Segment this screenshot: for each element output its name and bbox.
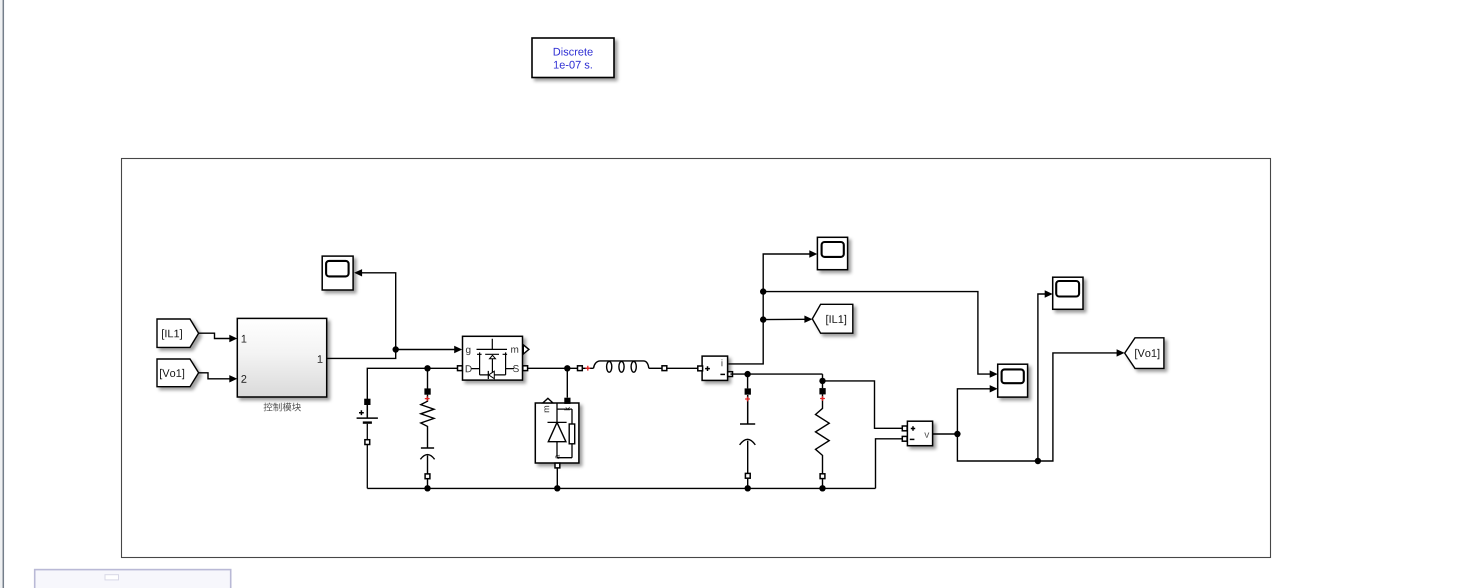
inductor L1	[578, 361, 700, 372]
MOSFET block	[458, 336, 529, 380]
junction node snubber branch	[424, 365, 430, 389]
output resistor branch R2	[816, 388, 830, 488]
current measurement block I1	[698, 356, 733, 380]
scope Scope2	[817, 237, 847, 269]
wire branch to Goto [IL1]	[760, 316, 812, 323]
wire From [Vo1] to subsystem port 2	[199, 373, 238, 383]
diode block D1	[535, 398, 579, 468]
scope Scope4	[1053, 277, 1083, 309]
window left edge	[0, 0, 3, 588]
bottom-left overlay panel	[35, 570, 231, 588]
Goto tag [Vo1]	[1125, 338, 1164, 369]
junction node at gate branch	[393, 346, 399, 352]
wire i output to Scope2	[728, 250, 817, 364]
wire subsystem output to Scope1 and MOSFET gate	[327, 269, 463, 358]
Goto tag [IL1]	[812, 304, 853, 333]
wire From [IL1] to subsystem port 1	[199, 333, 238, 342]
scope Scope1 (mirrored, input on right)	[322, 256, 353, 290]
series RC snubber branch R1C1	[420, 388, 434, 488]
ground rail (bottom return wire)	[367, 485, 875, 491]
DC voltage source E	[357, 399, 378, 489]
wire v- input to ground rail	[876, 439, 903, 489]
powergui block "Discrete 1e-07 s."	[532, 38, 614, 78]
wire minus rail from current measurement to load top	[730, 374, 902, 428]
wire branch to Scope3 input 1	[760, 288, 998, 377]
wire diode anode to ground rail	[554, 468, 560, 491]
wire DC source to MOSFET D (drain rail)	[367, 368, 457, 399]
From tag [Vo1]	[157, 359, 199, 387]
wire branch to Scope4	[1035, 290, 1053, 464]
From tag [IL1]	[157, 319, 199, 347]
model boundary frame	[122, 159, 1271, 558]
subsystem block 控制模块	[237, 318, 326, 411]
wire v output with branches	[933, 349, 1125, 461]
wire MOSFET S to inductor / diode node	[528, 365, 578, 398]
scope Scope3 (two inputs)	[998, 364, 1028, 397]
junction node capacitor branch	[744, 371, 750, 389]
output capacitor branch C2	[740, 388, 756, 488]
voltage measurement block V1	[902, 421, 932, 446]
junction node resistor branch	[819, 378, 825, 389]
